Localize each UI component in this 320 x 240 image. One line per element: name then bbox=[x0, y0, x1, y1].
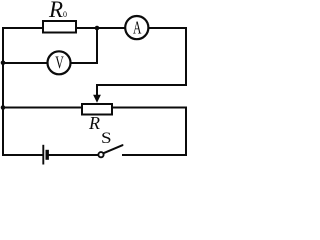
wire top middle segment (R0 to ammeter) bbox=[76, 27, 126, 29]
node junction left rheostat bbox=[1, 105, 6, 110]
svg-text:S: S bbox=[101, 130, 112, 147]
battery B1 short plate bbox=[46, 150, 49, 160]
voltmeter U2 bbox=[48, 51, 71, 74]
ammeter U1 bbox=[125, 16, 148, 39]
node junction top (between R0 and ammeter) bbox=[95, 26, 100, 31]
node junction left voltmeter bbox=[1, 61, 6, 66]
wire right lower vertical bbox=[185, 108, 187, 156]
svg-text:R: R bbox=[48, 0, 63, 22]
wire voltmeter branch up to node bbox=[96, 28, 98, 63]
wire rheostat branch left bbox=[3, 107, 81, 109]
switch S lever bbox=[104, 145, 123, 153]
wire bottom left segment bbox=[3, 154, 42, 156]
wire wiper vertical bbox=[96, 85, 98, 96]
wire top left segment bbox=[3, 27, 43, 29]
switch S pivot bbox=[98, 152, 103, 157]
wire top right segment (ammeter to corner) bbox=[148, 27, 186, 29]
resistor R0 bbox=[43, 21, 76, 33]
wire rheostat branch right bbox=[113, 107, 186, 109]
wire voltmeter branch right bbox=[71, 62, 98, 64]
wire right upper vertical bbox=[185, 28, 187, 85]
wire battery to switch bbox=[49, 154, 98, 156]
wire voltmeter branch left bbox=[3, 62, 48, 64]
wire wiper horizontal bbox=[97, 84, 186, 86]
svg-text:R: R bbox=[88, 113, 100, 133]
svg-text:V: V bbox=[55, 52, 64, 72]
battery B1 long plate bbox=[42, 145, 44, 165]
wire switch to corner bbox=[123, 154, 186, 156]
svg-text:0: 0 bbox=[63, 10, 67, 19]
wire left vertical bbox=[2, 28, 4, 155]
svg-text:A: A bbox=[133, 18, 141, 38]
rheostat R body bbox=[82, 104, 112, 115]
rheostat wiper arrowhead bbox=[93, 95, 101, 103]
